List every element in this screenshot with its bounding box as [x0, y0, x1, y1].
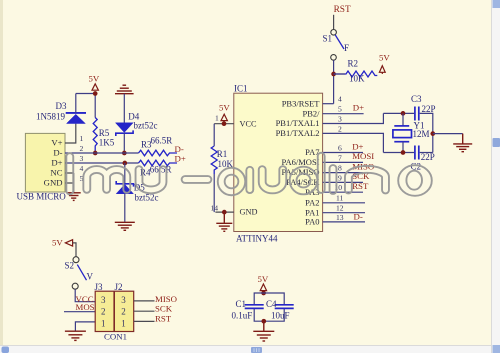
- pin 5 wire: [323, 113, 364, 115]
- junction: [331, 72, 336, 77]
- wire 5V rail: [76, 94, 95, 118]
- wire NC/GND to ground: [65, 173, 74, 193]
- wire 5V to S2: [73, 243, 76, 257]
- resistor R5: [93, 118, 115, 154]
- zener diode D5 bzt52c: [116, 163, 158, 222]
- USB pin numbers: [80, 134, 84, 183]
- junction (5V rail): [93, 91, 98, 96]
- junction (D5 / D+ line): [122, 161, 127, 166]
- power 5V (pin1): [219, 103, 230, 127]
- ground (crystal): [453, 134, 472, 152]
- resistor R3: [139, 136, 178, 156]
- scrollbar bottom: [0, 346, 491, 353]
- capacitor C1 0.1uF: [232, 299, 264, 321]
- pin 8 wire: [323, 172, 363, 174]
- IC right pin names: [276, 98, 321, 226]
- zener diode D4 bzt52c: [116, 112, 158, 154]
- crystal network bottom wire: [383, 152, 414, 154]
- wire D+ row: [65, 162, 139, 164]
- capacitor C3: [411, 94, 436, 121]
- resistor R2: [334, 59, 378, 84]
- wire RST to S1: [333, 15, 335, 29]
- wire row1 to ground: [75, 322, 95, 331]
- ground (D5): [115, 222, 135, 230]
- junction (R5 / D- line): [93, 151, 98, 156]
- capacitor C2: [411, 146, 435, 172]
- junction (C1/C4 bottom): [261, 319, 266, 324]
- wire S2 to CON1 VCC: [75, 289, 95, 302]
- wire C2 to right rail: [420, 152, 433, 154]
- pin 4 wire: [323, 103, 334, 105]
- ground (pin14): [216, 210, 232, 232]
- junction right rail: [430, 131, 435, 136]
- ground (above D4, flipped): [115, 85, 134, 94]
- pin 12 wire: [323, 212, 365, 214]
- power 5V (C1/C4): [258, 274, 269, 293]
- pin 1 VCC: [214, 114, 257, 129]
- pin 11 wire: [323, 202, 365, 204]
- wire V+: [65, 124, 76, 143]
- crystal Y1: [393, 113, 430, 152]
- pin 7 wire: [323, 161, 363, 163]
- wires C1/C4 frame: [254, 293, 284, 321]
- wire C3 to right rail: [420, 113, 433, 152]
- pin 10 wire: [323, 191, 363, 193]
- switch S2: [65, 257, 94, 290]
- op IC1 ATTINY44 body: [234, 84, 323, 244]
- power 5V (R2): [379, 53, 390, 74]
- pin 9 wire: [323, 181, 363, 183]
- junction top (crystal): [401, 111, 406, 116]
- pin 6 wire: [323, 152, 363, 154]
- USB MICRO connector body: [17, 133, 67, 201]
- connector CON1 body (J3/J2): [95, 282, 134, 342]
- switch S1: [323, 30, 350, 61]
- scrollbar right: [492, 0, 500, 353]
- pin 13 wire: [323, 221, 365, 223]
- wire S1 to pin4: [333, 60, 335, 103]
- wire to ground (crystal): [433, 133, 463, 135]
- diode D3 1N5819: [36, 94, 86, 124]
- wire D- row: [65, 152, 139, 154]
- resistor R4: [139, 160, 178, 177]
- resistor R1: [211, 124, 233, 212]
- power 5V (S2, left-pointing): [52, 237, 73, 247]
- pin 3 wire: [323, 113, 384, 123]
- ground (CON1): [65, 331, 86, 340]
- wire MOSI row: [64, 311, 95, 313]
- ground (USB): [67, 193, 81, 201]
- pin 14 GND: [211, 203, 258, 216]
- junction (C1/C4 top): [261, 291, 266, 296]
- wire ground to D4: [123, 94, 125, 123]
- capacitor C4 10uF: [266, 299, 294, 321]
- junction (D4 / D- line): [122, 151, 127, 156]
- junction bottom (crystal): [401, 150, 406, 155]
- CON1 right wires: [134, 301, 155, 322]
- power 5V (R5): [89, 74, 100, 91]
- crystal network top wire: [383, 112, 414, 114]
- pin 2 wire: [323, 133, 384, 152]
- ground (C1/C4): [253, 321, 274, 341]
